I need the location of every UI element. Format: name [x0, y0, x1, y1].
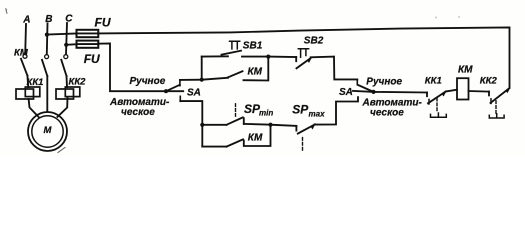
scan pencil mark near motor bottom: [58, 148, 65, 153]
wire phase A contact to heater: [26, 76, 29, 88]
switch SA2 common wire stub: [353, 91, 374, 92]
junction dot branch split: [200, 78, 204, 82]
wire KK1 to KM coil: [446, 90, 458, 92]
wire SP min branch left: [202, 124, 226, 126]
svg-text:FU: FU: [95, 15, 111, 29]
SPmin actuator dashed line: [235, 103, 237, 116]
svg-text:КМ: КМ: [248, 133, 263, 144]
wire SA1 upper throw to branch split: [180, 79, 202, 81]
svg-text:ческое: ческое: [370, 107, 404, 118]
pressure switch SPmax contact (NC, opening): [298, 124, 315, 134]
svg-text:Ручное: Ручное: [130, 76, 166, 87]
KK1 thermal release symbol: [431, 113, 447, 117]
thermal relay KK2 break contact blade: [491, 88, 511, 103]
svg-text:SA: SA: [339, 87, 353, 98]
KM main contact phase C: [61, 55, 68, 76]
wire SB1 junction to SB2: [268, 56, 296, 58]
junction dot automatic branch split: [200, 123, 204, 127]
motor M: [28, 112, 67, 151]
wire top bus from upper fuse to right edge riser: [98, 27, 509, 87]
KM main contact phase A: [21, 54, 27, 75]
contactor KM auxiliary contact (NO): [228, 71, 243, 77]
wire SPmax right to SA2 lower throw: [315, 97, 359, 124]
wire KM aux right and riser to SB1 line: [244, 57, 269, 81]
push button SB1 (NO): [222, 41, 242, 54]
svg-text:КК2: КК2: [69, 77, 87, 88]
wire phase B contact to motor: [46, 76, 48, 112]
wire KM lower right and riser to rejoin: [244, 125, 271, 146]
wire heater A to motor: [29, 99, 39, 117]
junction dot B to upper fuse: [45, 33, 49, 37]
wire to SB1 left: [202, 55, 228, 57]
junction dot C to lower fuse: [64, 43, 68, 47]
KK1 left terminal tick: [426, 93, 428, 97]
KK1 fixed contact bar: [428, 99, 430, 104]
svg-text:КМ: КМ: [458, 65, 473, 76]
thermal relay KK1 break contact blade: [428, 91, 446, 103]
svg-text:Ручное: Ручное: [366, 77, 402, 88]
fuse FU upper: [77, 30, 99, 37]
scan speck top right: [435, 17, 437, 19]
KK1 actuator dashed line: [436, 98, 438, 113]
contactor coil KM: [457, 78, 469, 99]
wire heater C to motor: [58, 97, 68, 117]
switch SA1 lower throw bar: [179, 96, 181, 101]
switch SA2 common junction dot: [371, 90, 375, 94]
wire SB2 right to SA2 upper throw: [311, 57, 358, 80]
svg-text:max: max: [309, 109, 326, 118]
svg-text:КК2: КК2: [480, 75, 498, 86]
svg-text:SB1: SB1: [243, 40, 263, 51]
switch SA1 blade: [166, 85, 180, 91]
wire KM aux branch left: [202, 78, 228, 80]
svg-text:КМ: КМ: [248, 67, 263, 78]
svg-text:FU: FU: [84, 52, 100, 66]
wire SB1 right to junction: [242, 56, 268, 58]
junction dot SPmin/KM rejoin: [268, 123, 272, 127]
KK2 left terminal tick: [488, 92, 490, 96]
contactor KM auxiliary contact lower (NO): [227, 139, 244, 146]
svg-text:КК1: КК1: [27, 77, 44, 88]
wire C to lower fuse: [66, 43, 76, 46]
wire branch split up to SB1 line: [201, 57, 203, 80]
switch SA2 upper throw bar: [356, 79, 358, 84]
wire phase C contact to heater: [66, 76, 69, 87]
SPmax actuator dashed line: [302, 138, 304, 151]
wire phase B vertical: [46, 24, 49, 55]
pressure switch SPmin contact (NO): [227, 117, 243, 124]
pencil mark top-left: [6, 9, 7, 13]
switch SA2 blade: [358, 85, 374, 92]
SB2 left terminal tick: [295, 57, 297, 61]
fuse FU lower: [77, 41, 99, 48]
KK2 fixed contact bar: [490, 99, 492, 104]
KK2 actuator dashed line: [495, 101, 497, 114]
wire B to upper fuse: [47, 34, 77, 35]
SPmax left terminal tick: [295, 126, 297, 131]
push button SB2 (NC): [297, 49, 312, 69]
svg-text:В: В: [45, 14, 52, 25]
switch SA1 upper throw bar: [179, 80, 181, 86]
KM main contact phase B: [42, 55, 49, 76]
thermal relay heater KK1 (phase A): [16, 87, 40, 99]
svg-text:ческое: ческое: [121, 107, 155, 118]
svg-text:КК1: КК1: [425, 75, 442, 86]
junction dot SB1/KM rejoin: [266, 55, 270, 59]
svg-text:М: М: [44, 125, 53, 136]
wire rejoin to SPmax: [271, 125, 297, 126]
SPmax label: [292, 103, 325, 119]
wire SA2 to KK1 contact: [374, 91, 428, 94]
SPmin label: [244, 102, 273, 118]
wire SPmin right to rejoin: [244, 123, 271, 126]
wire KM coil to KK2: [469, 90, 490, 93]
wire phase C vertical: [66, 23, 67, 54]
switch SA1 common junction dot: [164, 89, 168, 93]
wire KM lower branch left: [202, 146, 226, 148]
wire SA1 lower throw to automatic branch: [180, 101, 202, 147]
svg-text:min: min: [259, 109, 273, 118]
svg-text:SP: SP: [292, 103, 309, 117]
wire phase A vertical: [24, 24, 27, 54]
wire lower fuse to SA common (left riser and horizontal): [98, 44, 183, 92]
KK2 thermal release symbol: [489, 114, 504, 118]
svg-text:SB2: SB2: [304, 35, 324, 46]
wire SPmin right terminal tick: [243, 118, 245, 124]
thermal relay heater KK2 (phase C): [56, 87, 80, 99]
svg-text:SA: SA: [187, 88, 201, 99]
